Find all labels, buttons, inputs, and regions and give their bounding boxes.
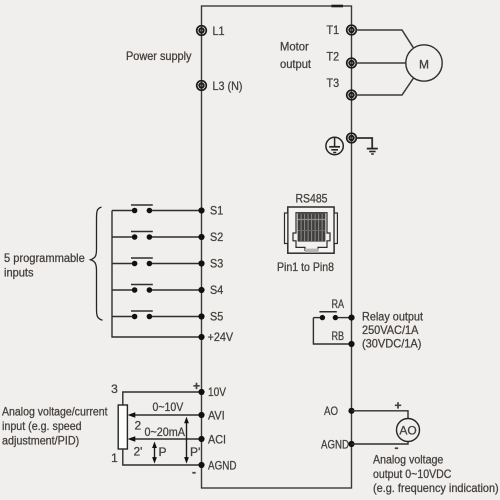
wiper wire ACI (130, 438, 202, 440)
switch S5 (112, 311, 202, 319)
svg-text:5 programmable: 5 programmable (4, 251, 85, 265)
svg-text:(e.g. frequency indication): (e.g. frequency indication) (373, 481, 499, 495)
svg-text:Power supply: Power supply (126, 49, 192, 63)
svg-text:T2: T2 (327, 50, 340, 64)
svg-text:AGND: AGND (321, 437, 349, 451)
wire ground terminal to chassis ground (356, 138, 372, 148)
wire meter to AGND (352, 442, 409, 445)
wire pot bottom to AGND (123, 449, 202, 465)
node RB (348, 341, 354, 347)
input common bus wire (112, 211, 202, 338)
svg-text:AGND: AGND (208, 459, 237, 473)
svg-text:S4: S4 (210, 283, 223, 297)
svg-text:ACI: ACI (208, 433, 226, 447)
svg-text:1: 1 (111, 451, 118, 465)
node S4 (198, 287, 204, 293)
svg-text:RS485: RS485 (296, 192, 328, 206)
svg-text:250VAC/1A: 250VAC/1A (362, 323, 418, 337)
top border tick (331, 5, 343, 8)
svg-text:inputs: inputs (4, 266, 34, 280)
svg-text:M: M (419, 58, 429, 72)
motor M1 (406, 45, 442, 81)
svg-text:+: + (395, 399, 402, 413)
svg-text:10V: 10V (208, 385, 226, 399)
chassis ground (367, 149, 378, 154)
wire pot top to 10V (123, 392, 202, 405)
node S1 (198, 207, 204, 213)
terminal ground (347, 133, 357, 143)
node AO (348, 408, 354, 414)
wire T3 to motor (356, 78, 413, 95)
svg-text:0~10V: 0~10V (153, 400, 184, 414)
node S3 (198, 260, 204, 266)
svg-text:adjustment/PID): adjustment/PID) (2, 434, 79, 448)
node 10V (198, 389, 204, 395)
arrow P (152, 442, 157, 464)
switch S3 (112, 258, 202, 266)
svg-text:2': 2' (134, 445, 143, 459)
wire T1 to motor (356, 30, 413, 48)
terminal T3 (347, 90, 357, 100)
svg-text:Analog voltage/current: Analog voltage/current (2, 405, 108, 419)
svg-text:(30VDC/1A): (30VDC/1A) (362, 337, 421, 351)
svg-text:Relay output: Relay output (362, 310, 424, 324)
svg-text:output: output (280, 57, 312, 71)
terminal L1 (197, 26, 207, 36)
svg-text:L3 (N): L3 (N) (213, 79, 243, 93)
node +24V (198, 334, 204, 340)
node S5 (198, 313, 204, 319)
svg-text:S5: S5 (210, 310, 223, 324)
node RA (348, 315, 354, 321)
node AGND left (198, 462, 204, 468)
inverter body rectangle (202, 6, 352, 488)
node S2 (198, 234, 204, 240)
svg-text:0~20mA: 0~20mA (145, 425, 186, 439)
node AVI (198, 412, 204, 418)
terminal T1 (347, 25, 357, 35)
arrow P' (184, 417, 189, 464)
svg-text:P': P' (190, 445, 200, 459)
svg-text:2: 2 (135, 419, 142, 433)
svg-text:RB: RB (332, 329, 345, 343)
potentiometer VR1 (118, 405, 127, 449)
svg-text:AO: AO (324, 404, 338, 418)
svg-text:+: + (193, 379, 200, 393)
meter AO (397, 419, 420, 442)
wiper wire AVI (130, 414, 202, 416)
node AGND right (348, 441, 354, 447)
relay contact RA (313, 312, 351, 321)
svg-text:S1: S1 (210, 204, 223, 218)
svg-text:T1: T1 (327, 23, 340, 37)
svg-text:output 0~10VDC: output 0~10VDC (373, 467, 452, 481)
RS485 connector U1 (285, 207, 338, 253)
protective earth symbol (326, 137, 343, 154)
svg-text:input (e.g. speed: input (e.g. speed (2, 419, 82, 433)
svg-text:+24V: +24V (208, 330, 234, 344)
svg-text:Pin1 to Pin8: Pin1 to Pin8 (277, 260, 334, 274)
svg-text:T3: T3 (327, 76, 340, 90)
wire AO to meter (352, 411, 409, 419)
svg-text:P: P (159, 445, 167, 459)
svg-text:AO: AO (399, 424, 416, 438)
svg-text:RA: RA (332, 297, 345, 311)
svg-text:AVI: AVI (208, 409, 225, 423)
5 programmable inputs brace (91, 207, 103, 320)
switch S2 (112, 232, 202, 240)
switch S4 (112, 285, 202, 293)
terminal T2 (347, 58, 357, 68)
svg-text:S3: S3 (210, 257, 223, 271)
svg-text:3: 3 (111, 382, 118, 396)
terminal L3 (N) (197, 81, 207, 91)
switch S1 (112, 205, 202, 213)
svg-text:Analog voltage: Analog voltage (373, 453, 444, 467)
svg-text:-: - (192, 465, 196, 479)
svg-text:L1: L1 (213, 24, 225, 38)
wire T2 to motor (356, 62, 405, 64)
node ACI (198, 436, 204, 442)
svg-text:Motor: Motor (280, 40, 309, 54)
wire to RB (313, 318, 351, 344)
svg-text:S2: S2 (210, 230, 223, 244)
